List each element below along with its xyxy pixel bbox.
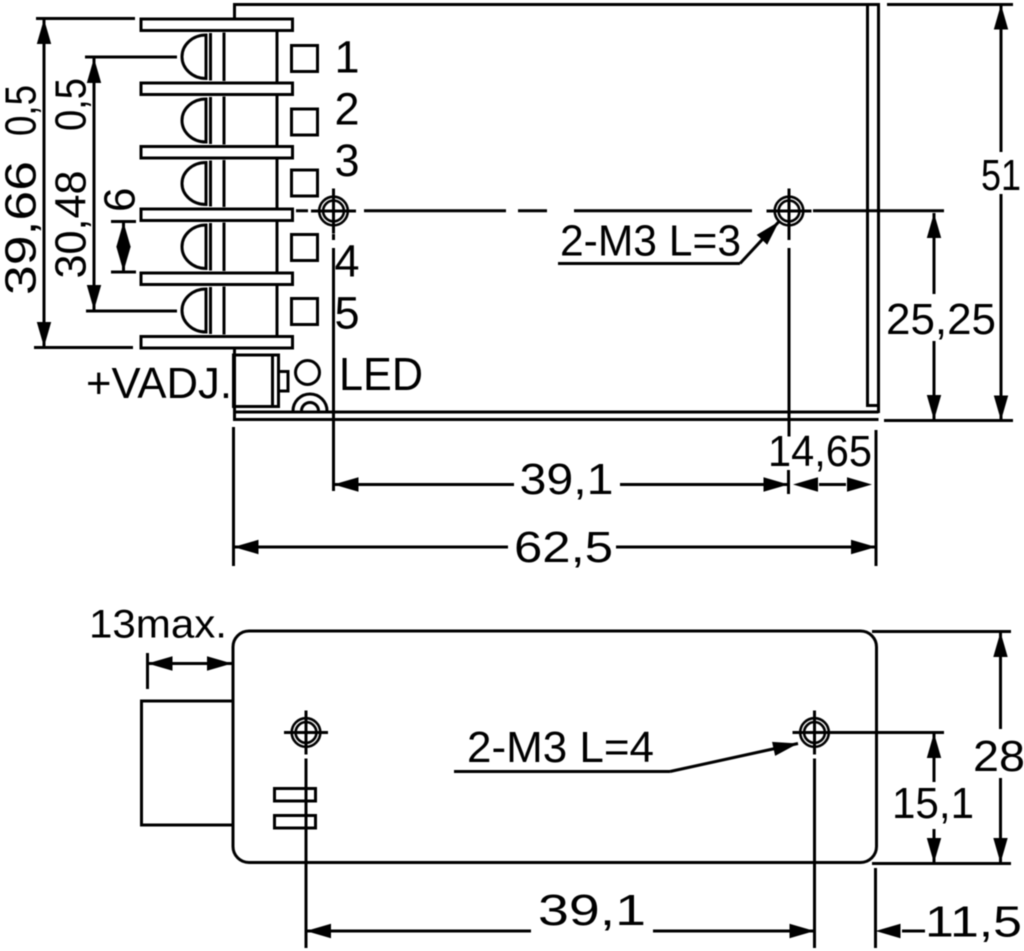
svg-text:2: 2 (335, 84, 360, 135)
extension line from right hole to dim 15,1 (836, 731, 944, 734)
terminal block separator bar 5 (141, 273, 293, 285)
arrow 15,1 bottom (927, 838, 941, 863)
pin 2 solder pad square (292, 109, 318, 135)
terminal 2 clamp line b (223, 97, 226, 145)
svg-text:62,5: 62,5 (514, 523, 613, 572)
extension line side view top right (872, 630, 1011, 633)
terminal 3 screw (D shape) (182, 163, 206, 205)
tick top (dim 6) (111, 220, 136, 223)
pin 4 solder pad square (292, 235, 318, 261)
extension line terminal5 center (30,48) (86, 310, 177, 313)
terminal 2 clamp line a (209, 97, 212, 144)
arrow 30,48 bottom (87, 285, 101, 310)
extension line from right hole down (side) (813, 759, 816, 949)
cable grommet inner arc (302, 403, 319, 412)
svg-text:39,1: 39,1 (520, 455, 614, 504)
arrow 39,1 right (side) (790, 924, 815, 938)
extension line bottom (39,66) (34, 346, 133, 349)
terminal 1 clamp line a (209, 33, 212, 81)
leader underline 2-M3 L=3 (558, 262, 740, 265)
terminal block separator bar 3 (141, 147, 293, 159)
svg-text:14,65: 14,65 (768, 427, 872, 476)
arrow 14,65 right (847, 477, 872, 491)
arrow 39,1 right (764, 477, 789, 491)
pin 3 solder pad square (292, 170, 318, 196)
terminal 3 clamp line b (223, 160, 226, 207)
svg-text:51: 51 (981, 151, 1021, 200)
terminal block separator bar 1 (141, 19, 293, 31)
terminal 1 clamp line b (223, 33, 226, 82)
VADJ potentiometer shaft tab (279, 372, 289, 392)
mounting hole M3 left (side view) (284, 711, 328, 755)
svg-text:15,1: 15,1 (892, 779, 974, 828)
svg-text:5: 5 (335, 288, 360, 339)
centerline dash 0 (296, 209, 308, 212)
terminal 5 cavity right wall (276, 285, 279, 337)
side view: enclosure rounded body (233, 631, 877, 863)
extension line side view bottom right (872, 862, 1011, 865)
centerline long dash 2 (574, 209, 752, 212)
terminal 4 screw (D shape) (182, 225, 206, 269)
arrow 28 top (993, 632, 1007, 657)
svg-text:0,5: 0,5 (47, 78, 96, 131)
dimension line 39,1 right segment (620, 483, 789, 486)
leader underline 2-M3 L=4 (454, 770, 670, 773)
leader arrow 2-M3 L=4 (772, 736, 800, 755)
top view: enclosure bottom edge lower line (233, 418, 879, 421)
dimension line 62,5 right segment (616, 546, 876, 549)
extension dash below right hole (788, 232, 791, 240)
svg-text:28: 28 (973, 732, 1024, 781)
dimension line 28 upper part (999, 632, 1002, 729)
terminal 4 clamp line b (223, 223, 226, 272)
extension line from left hole down (332, 248, 335, 491)
arrow 39,66 top (37, 19, 51, 44)
top view: enclosure left edge upper segment (233, 3, 236, 20)
dimension line 13max (148, 662, 233, 665)
centerline short dash (518, 209, 547, 212)
terminal 5 screw (D shape) (182, 289, 206, 332)
VADJ potentiometer body (234, 355, 279, 407)
top view: enclosure right edge outer line (877, 3, 880, 413)
terminal 3 clamp line a (209, 161, 212, 207)
terminal 4 cavity right wall (276, 221, 279, 274)
svg-text:13max.: 13max. (89, 603, 227, 647)
arrow 30,48 top (87, 58, 101, 83)
tick bottom (dim 6) (111, 271, 136, 274)
terminal 5 clamp line a (209, 287, 212, 334)
top view: right edge bottom connector (866, 404, 880, 407)
terminal 5 clamp line b (223, 287, 226, 335)
extension line 62,5 left (232, 427, 235, 566)
svg-text:39,66: 39,66 (0, 161, 46, 295)
dimension line 15,1 upper part (933, 733, 936, 782)
dimension line stub 11,5 (902, 930, 925, 933)
svg-text:39,1: 39,1 (538, 886, 646, 935)
arrow 51 bottom (994, 396, 1008, 421)
leader diagonal 2-M3 L=4 (670, 744, 798, 772)
terminal 2 cavity right wall (276, 95, 279, 147)
pin 1 solder pad square (292, 46, 318, 72)
mounting hole M3 right (side view) (793, 711, 837, 755)
centerline / extension to dim 25,25 (813, 209, 944, 212)
mounting hole M3 right (top view) (767, 189, 812, 234)
svg-text:+VADJ.: +VADJ. (86, 359, 232, 408)
svg-text:0,5: 0,5 (0, 85, 46, 136)
arrow 39,1 left (side) (306, 924, 331, 938)
arrow 15,1 top (927, 733, 941, 758)
centerline long dash 1 (364, 209, 506, 212)
arrow 62,5 right (851, 540, 876, 554)
dimension line 14,65 middle segment (819, 483, 846, 486)
side view: vent slot upper (275, 789, 316, 802)
dimension line 39,1 left segment (334, 483, 515, 486)
svg-text:1: 1 (335, 32, 360, 83)
arrow 28 bottom (993, 838, 1007, 863)
arrow 51 top (994, 5, 1008, 30)
svg-text:LED: LED (339, 348, 423, 400)
leader diagonal 2-M3 L=3 (740, 222, 779, 264)
svg-text:4: 4 (335, 236, 360, 287)
svg-text:25,25: 25,25 (886, 295, 996, 344)
VADJ potentiometer inner line (271, 355, 274, 407)
dimension line 15,1 lower part (933, 829, 936, 863)
extension line from left hole down (side) (305, 759, 308, 949)
top view: enclosure top edge (233, 3, 879, 6)
svg-text:30,48: 30,48 (47, 171, 96, 279)
dimension line 30,48 (93, 58, 96, 310)
top view: enclosure right edge inner line (866, 3, 869, 406)
arrow 13max left (148, 656, 173, 670)
extension line bottom right (51/25,25) (884, 419, 1013, 422)
dimension line 51 lower part (1000, 194, 1003, 421)
dimension line 51 upper part (1000, 5, 1003, 153)
arrow 6 up (116, 222, 130, 247)
dimension line 62,5 left segment (234, 546, 509, 549)
arrow 39,66 bottom (37, 322, 51, 347)
terminal 2 screw (D shape) (182, 99, 206, 142)
extension tick 13max (146, 653, 149, 689)
arrow 11,5 (876, 924, 901, 938)
extension line 11,5 (874, 868, 877, 948)
dimension line 25,25 lower part (933, 341, 936, 420)
pin 5 solder pad square (292, 299, 318, 325)
dimension line 6 (122, 222, 125, 272)
svg-text:2-M3 L=4: 2-M3 L=4 (467, 723, 654, 772)
arrow 6 down (116, 247, 130, 272)
side view: vent slot lower (275, 816, 316, 829)
terminal 3 cavity right wall (276, 158, 279, 209)
svg-text:2-M3 L=3: 2-M3 L=3 (560, 217, 741, 266)
extension line 62,5 right (875, 430, 878, 566)
dimension line 28 lower part (999, 778, 1002, 863)
side view: terminal block protrusion (142, 701, 234, 825)
svg-text:6: 6 (96, 188, 145, 212)
LED hole circle (296, 361, 320, 385)
extension line terminal1 center (30,48) (85, 56, 177, 59)
arrow 14,65 left (793, 477, 818, 491)
terminal 4 clamp line a (209, 223, 212, 271)
arrow 13max right (207, 656, 232, 670)
extension dash below left hole (332, 234, 335, 240)
terminal 1 cavity right wall (276, 31, 279, 84)
arrow 62,5 left (234, 540, 259, 554)
terminal block separator bar 6 (141, 337, 293, 349)
svg-text:11,5: 11,5 (925, 898, 1022, 947)
top view: enclosure left edge lower segment (233, 348, 236, 421)
dimension line 25,25 upper part (933, 213, 936, 294)
arrow 25,25 top (927, 213, 941, 238)
terminal block separator bar 4 (141, 209, 293, 221)
dimension line 39,1 right segment (side) (653, 930, 815, 933)
top view: enclosure bottom edge upper line (233, 411, 879, 414)
terminal 1 screw (D shape) (182, 35, 206, 79)
extension line from right hole down (788, 248, 791, 437)
cable grommet outer arc (293, 394, 327, 411)
extension line top right (51) (887, 3, 1013, 6)
mounting hole M3 left (top view) (311, 189, 356, 234)
extension line top (39,66) (36, 17, 135, 20)
extension line 14,65 left lower stub (787, 470, 790, 494)
leader arrow 2-M3 L=3 (757, 217, 785, 245)
dimension line 39,1 left segment (side) (306, 930, 531, 933)
terminal block separator bar 2 (141, 83, 293, 95)
arrow 39,1 left (334, 477, 359, 491)
arrow 25,25 bottom (927, 395, 941, 420)
svg-text:3: 3 (335, 135, 360, 186)
dimension line 39,66 (43, 19, 46, 347)
